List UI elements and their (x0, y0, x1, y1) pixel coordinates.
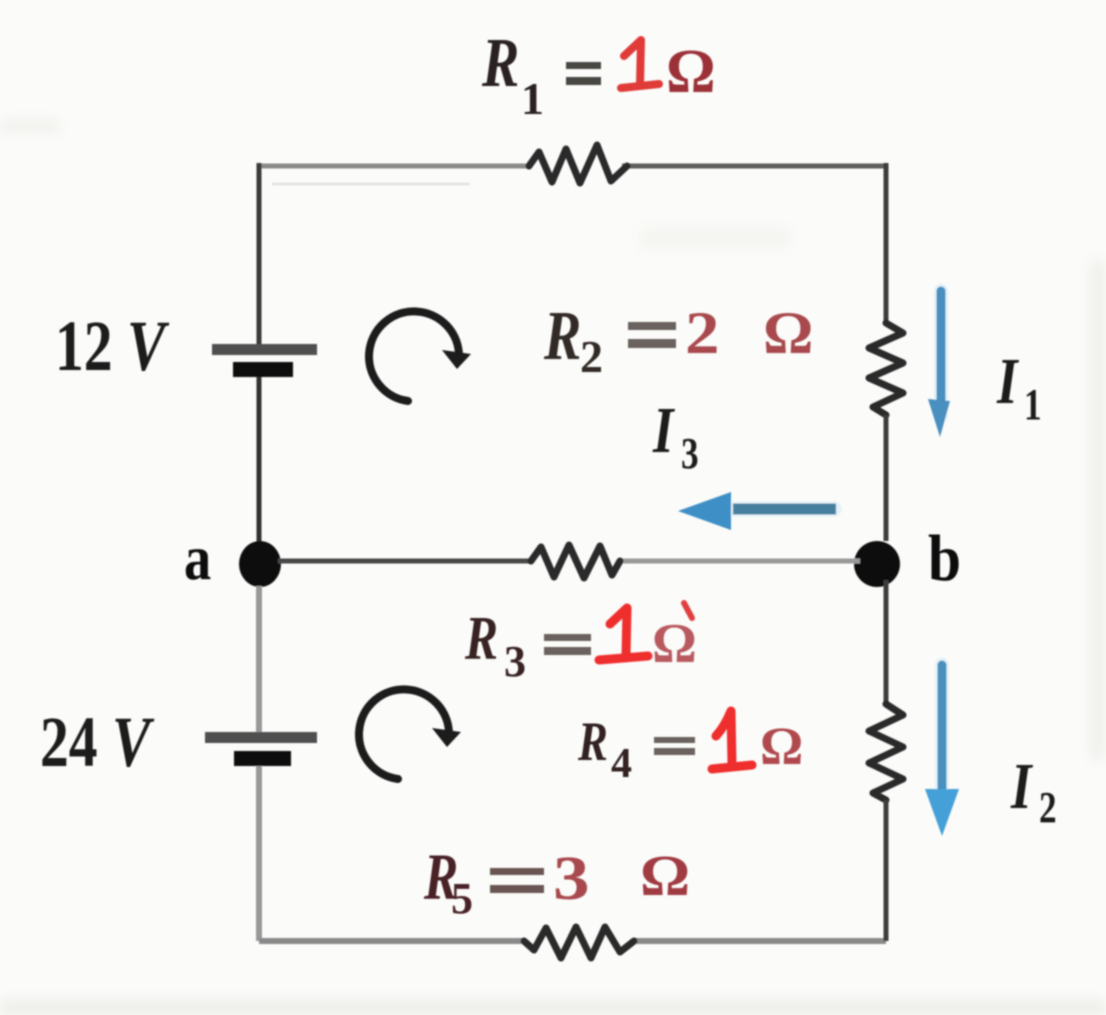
svg-text:5: 5 (451, 874, 473, 923)
label R3 (464, 605, 591, 686)
wire left vertical upper (257, 163, 262, 345)
svg-text:Ω: Ω (666, 38, 716, 106)
svg-text:24 V: 24 V (40, 703, 154, 783)
battery 12V (212, 344, 317, 377)
svg-text:Ω: Ω (760, 716, 803, 776)
wire middle horizontal (a to b) (278, 559, 860, 564)
svg-text:3: 3 (504, 637, 526, 686)
wire top horizontal (259, 164, 886, 169)
wire left vertical mid (257, 377, 262, 545)
svg-text:I: I (652, 393, 675, 466)
current arrow I3 (blue, left) (678, 492, 836, 530)
node b (854, 541, 900, 587)
svg-text:Ω: Ω (652, 613, 697, 675)
svg-text:2: 2 (685, 299, 719, 366)
ohm symbol (R3) with accent (652, 603, 697, 675)
label R5 (423, 840, 544, 923)
value 1 handwritten (R1) (621, 40, 659, 88)
svg-text:I: I (1010, 749, 1033, 822)
loop arrow top (clockwise) (369, 311, 471, 401)
svg-text:2: 2 (1039, 782, 1057, 832)
svg-text:2: 2 (580, 331, 603, 382)
svg-text:1: 1 (1024, 379, 1042, 429)
svg-text:Ω: Ω (640, 844, 690, 908)
svg-text:Ω: Ω (763, 300, 813, 366)
svg-text:R: R (481, 24, 519, 101)
battery 24V (205, 732, 317, 766)
svg-text:b: b (928, 521, 961, 595)
label R4 (577, 710, 695, 787)
current arrow I1 (blue, down) (928, 291, 950, 437)
svg-text:12 V: 12 V (55, 307, 169, 387)
wire left vertical lower (256, 586, 262, 733)
value 1 handwritten (R3) (599, 608, 648, 660)
wire right vertical mid (884, 415, 889, 541)
label R1 (481, 24, 601, 124)
resistor R5 (524, 927, 634, 958)
resistor R4 (869, 704, 903, 800)
loop arrow bottom (clockwise) (359, 689, 461, 779)
svg-text:a: a (184, 522, 211, 593)
wire left vertical bottom (256, 766, 262, 941)
wire right vertical bottom (884, 800, 889, 941)
svg-text:4: 4 (611, 741, 632, 787)
resistor R1 (529, 145, 627, 183)
resistor R3 (531, 545, 620, 578)
wire right vertical upper (884, 163, 889, 323)
value 1 handwritten (R4) (712, 711, 752, 769)
node a (239, 541, 281, 587)
svg-text:1: 1 (521, 73, 544, 124)
label R2 (543, 297, 676, 382)
svg-text:3: 3 (553, 844, 590, 913)
current arrow I2 (blue, down) (925, 665, 959, 836)
wire bottom horizontal (259, 938, 886, 944)
svg-text:R: R (464, 605, 498, 673)
svg-text:I: I (996, 344, 1019, 417)
svg-text:R: R (577, 710, 608, 772)
wire echo artifact under top wire (272, 183, 470, 186)
wire right vertical lower (884, 580, 889, 704)
svg-text:R: R (543, 297, 581, 374)
resistor R2 (869, 323, 903, 415)
svg-text:3: 3 (681, 428, 699, 478)
